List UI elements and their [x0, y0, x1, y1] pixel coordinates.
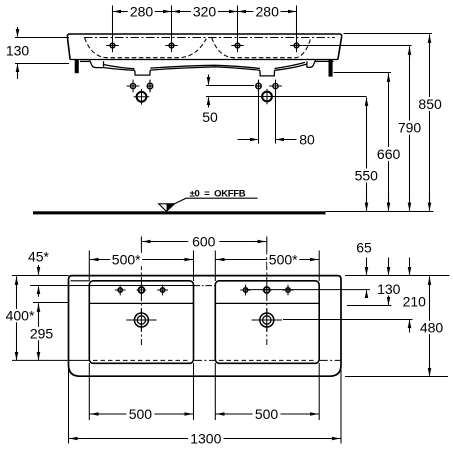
- dim 1300 bottom: [69, 367, 342, 444]
- svg-text:295: 295: [30, 326, 54, 342]
- hidden bowl outline right (dashed): [212, 38, 311, 58]
- svg-text:130: 130: [377, 281, 401, 297]
- dim 50 (fixing holes to drain): [206, 75, 367, 108]
- tap hole 2: [165, 39, 177, 52]
- svg-text:50: 50: [202, 109, 218, 125]
- svg-text:1300: 1300: [190, 431, 221, 447]
- right side height dimensions: [303, 34, 432, 211]
- dim line 660: [388, 73, 390, 211]
- svg-text:500: 500: [129, 406, 153, 422]
- tap hole 4: [290, 39, 302, 52]
- svg-text:500: 500: [255, 406, 279, 422]
- hidden bowl floor right (dashed): [219, 359, 316, 361]
- dim 80 (fixing hole spacing): [238, 90, 297, 144]
- svg-text:550: 550: [355, 168, 379, 184]
- tap hole 1: [106, 39, 118, 52]
- tap axis line / 65 ext (through right bowl): [246, 289, 370, 291]
- dim line 850: [429, 34, 431, 211]
- svg-text:480: 480: [420, 320, 444, 336]
- back ledge line left margin: [71, 280, 90, 282]
- left bowl deck+basin region: [89, 281, 193, 364]
- basin body outline (elevation): [70, 33, 340, 35]
- dim 500* left: [89, 259, 193, 261]
- drain boss left bowl: [135, 70, 151, 75]
- 400 reference line dash-dot: [194, 359, 342, 361]
- tap holes plan right bowl: [240, 285, 293, 296]
- dim 500 bottom right: [215, 413, 319, 415]
- extension lines top chain: [113, 6, 297, 40]
- dim 400* left: [16, 276, 18, 360]
- svg-text:660: 660: [377, 146, 401, 162]
- supply pipe tick right: [329, 60, 333, 77]
- svg-text:320: 320: [193, 3, 217, 19]
- hidden bowl outline left (dashed): [85, 38, 207, 58]
- floor line (thick): [33, 211, 326, 214]
- bowl centerline left (dash-dot): [140, 246, 142, 345]
- rim centerline dash-dot (elevation): [84, 37, 335, 39]
- dim line 790: [409, 46, 411, 211]
- svg-text:500*: 500*: [112, 252, 141, 268]
- dim 500* right: [215, 259, 319, 261]
- supply pipe tick left: [75, 60, 79, 73]
- right bowl inner step: [215, 302, 319, 304]
- level symbol triangle: [159, 198, 258, 211]
- svg-text:600: 600: [192, 234, 216, 250]
- floor extension (thin): [326, 211, 434, 213]
- plan outer outline: [69, 276, 342, 377]
- bowl edge extension lines (500 dims): [89, 251, 319, 421]
- dim 600 (bowl centers): [141, 237, 266, 247]
- ext line underside: [334, 72, 392, 74]
- svg-text:400*: 400*: [6, 308, 35, 324]
- drain plan left bowl: [126, 309, 156, 332]
- svg-text:45*: 45*: [28, 249, 50, 265]
- dim 130 bowl depth (left side): [15, 27, 69, 79]
- tap hole 3: [231, 39, 243, 52]
- svg-text:280: 280: [130, 3, 154, 19]
- svg-text:130: 130: [6, 43, 30, 59]
- dim line 550: [366, 97, 368, 211]
- ext line tap axis: [303, 45, 412, 47]
- dim 130: [388, 258, 390, 305]
- svg-text:210: 210: [403, 294, 427, 310]
- dim 295 left: [33, 303, 69, 360]
- drain plan right bowl: [252, 309, 282, 332]
- svg-text:500*: 500*: [269, 252, 298, 268]
- chain arrows: [113, 11, 125, 13]
- tap position line 45* (through left bowl): [30, 285, 194, 287]
- fixing holes + drain left bowl (elevation): [127, 80, 153, 105]
- chain dimension line: [113, 11, 297, 13]
- dim 65: [366, 258, 368, 298]
- svg-text:790: 790: [398, 120, 422, 136]
- right side plan extension lines: [283, 276, 450, 377]
- dim 210: [409, 258, 411, 333]
- dim 500 bottom left: [89, 413, 193, 415]
- drain boss right bowl: [260, 70, 275, 76]
- fixing holes + drain right bowl (elevation): [256, 80, 282, 105]
- svg-text:280: 280: [256, 3, 280, 19]
- svg-text:±0 = OKFFB: ±0 = OKFFB: [190, 188, 246, 199]
- right bowl deck+basin region: [215, 281, 319, 364]
- tap holes plan left bowl: [115, 285, 168, 296]
- dim 480: [429, 276, 431, 375]
- left bowl inner step: [89, 302, 193, 304]
- bowl centerline right (dash-dot): [266, 246, 268, 345]
- faucet hole symbols elevation: [106, 39, 302, 52]
- dim 45* left: [12, 265, 69, 297]
- svg-text:850: 850: [418, 96, 442, 112]
- ext line rim top: [344, 33, 433, 35]
- underside profile of basin (elevation): [80, 60, 334, 76]
- svg-text:65: 65: [356, 240, 372, 256]
- svg-text:80: 80: [299, 131, 315, 147]
- hidden bowl floor left (dashed): [93, 359, 190, 361]
